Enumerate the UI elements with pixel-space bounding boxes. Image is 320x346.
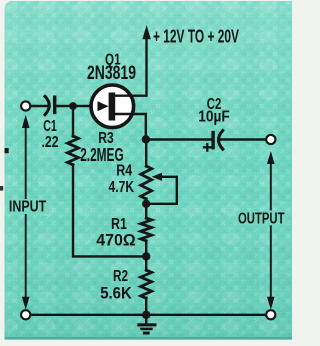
resistor R1	[141, 218, 152, 241]
scan mark left edge	[5, 148, 9, 153]
wire C2 to output terminal	[218, 138, 266, 140]
node R1/R2/R3 junction	[142, 252, 150, 260]
node C2 tap	[142, 135, 150, 143]
svg-text:5.6K: 5.6K	[100, 284, 132, 302]
capacitor C2	[211, 131, 222, 150]
terminal output bottom	[266, 310, 275, 319]
wire source down to C2 node	[115, 114, 146, 140]
svg-text:R4: R4	[116, 162, 132, 179]
wire input terminal to C1	[30, 105, 49, 107]
transistor Q1 gate arrow	[98, 101, 109, 111]
resistor R4	[141, 166, 152, 199]
node ground junction	[142, 311, 150, 319]
input arrow down	[22, 297, 30, 310]
svg-text:+ 12V TO + 20V: + 12V TO + 20V	[153, 27, 239, 47]
svg-text:4.7K: 4.7K	[109, 179, 135, 196]
svg-text:R2: R2	[113, 268, 128, 285]
wiper return wire	[151, 177, 177, 204]
input arrow up	[22, 115, 30, 128]
supply arrow	[142, 25, 150, 39]
output dimension line	[270, 162, 272, 298]
transistor Q1 body	[91, 85, 134, 128]
wire R4 to R1	[145, 199, 147, 219]
terminal input bottom	[21, 310, 30, 319]
capacitor C1	[45, 96, 56, 115]
wire R2 to ground rail	[145, 298, 147, 315]
wire main bus C2 node to R4	[145, 140, 147, 167]
wire R1 to R2	[145, 241, 147, 271]
resistor R2	[141, 270, 152, 298]
svg-text:2N3819: 2N3819	[87, 63, 136, 84]
output arrow up	[267, 151, 275, 164]
wire node to C2	[146, 138, 212, 140]
svg-text:470Ω: 470Ω	[96, 231, 136, 250]
ground	[137, 315, 156, 335]
scan mark left edge 2	[0, 186, 3, 191]
node R4 bottom	[142, 200, 150, 208]
wire C1 to gate	[56, 105, 98, 107]
svg-text:.22: .22	[42, 134, 59, 151]
resistor R3	[68, 136, 79, 165]
wire R3 bottom to junction	[73, 165, 146, 257]
terminal output top	[266, 135, 275, 144]
input dimension line	[25, 126, 27, 298]
svg-text:OUTPUT: OUTPUT	[238, 210, 285, 227]
terminal input top	[21, 101, 30, 110]
transistor Q1 channel bar	[109, 93, 116, 121]
wire R3 branch vertical	[72, 106, 74, 137]
darker strip at bottom of panel	[5, 337, 293, 340]
output arrow down	[267, 297, 275, 310]
C2 plus sign	[204, 144, 211, 151]
svg-text:C1: C1	[43, 118, 57, 135]
node gate junction	[69, 102, 77, 110]
potentiometer R4 wiper arrow	[152, 173, 162, 181]
bottom rail wire	[30, 314, 267, 316]
label OUTPUT	[236, 210, 287, 227]
svg-text:10µF: 10µF	[198, 109, 230, 126]
label INPUT	[7, 199, 49, 216]
wire drain to supply corner	[115, 35, 147, 96]
svg-text:INPUT: INPUT	[9, 199, 46, 216]
